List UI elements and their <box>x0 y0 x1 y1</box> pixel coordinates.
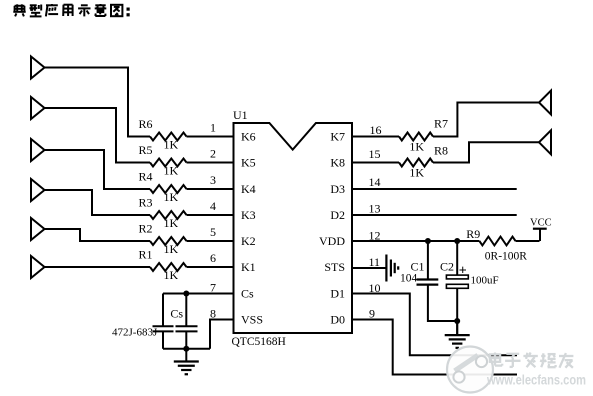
wire pad P2 to R5 <box>45 108 151 163</box>
wire pad P1 to R6 <box>45 68 151 137</box>
wire VDD to C1 <box>427 241 429 280</box>
svg-text:14: 14 <box>369 175 381 189</box>
svg-text:1K: 1K <box>164 242 179 256</box>
resistor R3 <box>150 211 187 219</box>
svg-text:4: 4 <box>210 199 216 213</box>
wire pin 14 (D3) <box>352 188 517 190</box>
ground (sideways) at STS <box>385 255 387 282</box>
svg-text:+: + <box>459 264 467 279</box>
wire pin 13 (D2) <box>352 214 517 216</box>
svg-text:7: 7 <box>210 281 216 295</box>
op IC U1 QTC5168H body <box>234 123 353 333</box>
svg-text:D0: D0 <box>330 313 345 327</box>
svg-text:VCC: VCC <box>530 218 552 229</box>
resistor R4 <box>150 185 187 193</box>
svg-text:1K: 1K <box>164 190 179 204</box>
svg-text:R6: R6 <box>139 117 153 131</box>
svg-text:1K: 1K <box>164 164 179 178</box>
wire R7 to pad P7 <box>433 103 540 137</box>
svg-text:9: 9 <box>369 307 375 321</box>
title text 典型应用示意图: <box>13 4 129 16</box>
wire pin 8 (VSS) <box>210 320 234 349</box>
svg-text:15: 15 <box>369 147 381 161</box>
svg-text:R3: R3 <box>139 196 153 210</box>
wire C2 to ground <box>456 288 458 336</box>
svg-text:R2: R2 <box>139 222 153 236</box>
svg-text:12: 12 <box>369 229 381 243</box>
wire R3 to pin 4 <box>187 214 234 216</box>
resistor R6 <box>150 133 187 141</box>
ground below C2 <box>456 322 458 335</box>
svg-text:Cs: Cs <box>170 307 183 321</box>
capacitor C1 plates <box>417 278 439 280</box>
node junction on Cs net <box>183 291 189 297</box>
power VCC symbol <box>539 229 541 241</box>
resistor R1 <box>150 263 187 271</box>
resistor R8 <box>399 159 433 167</box>
svg-text:R8: R8 <box>434 144 448 158</box>
wire Cs right leg upper <box>185 294 187 327</box>
svg-text:R1: R1 <box>139 248 153 262</box>
svg-text:K5: K5 <box>241 156 256 170</box>
svg-text:R4: R4 <box>139 170 153 184</box>
touch pad electrode P3 <box>31 139 45 161</box>
svg-text:D3: D3 <box>330 182 345 196</box>
svg-text:VDD: VDD <box>319 234 345 248</box>
svg-text:100uF: 100uF <box>471 275 499 287</box>
svg-text:VSS: VSS <box>241 313 263 327</box>
wire pin 7 (Cs) <box>163 293 234 295</box>
svg-text:3: 3 <box>210 173 216 187</box>
wire pin 11 (STS) <box>352 267 386 269</box>
wire Cs left leg upper <box>162 294 164 327</box>
node junction VDD-C1 <box>425 238 431 244</box>
resistor R2 <box>150 237 187 245</box>
resistor R9 <box>479 237 515 246</box>
svg-text:2: 2 <box>210 147 216 161</box>
svg-text:1K: 1K <box>164 216 179 230</box>
wire pad P4 to R3 <box>45 190 151 215</box>
wire VDD to C2 <box>456 241 458 276</box>
svg-text:K7: K7 <box>330 130 345 144</box>
svg-text:C1: C1 <box>411 260 425 274</box>
wire pad P3 to R4 <box>45 150 151 189</box>
touch pad electrode P4 <box>31 179 45 201</box>
svg-text:8: 8 <box>210 307 216 321</box>
wire Cs bottom bus <box>163 348 210 350</box>
wire R4 to pin 3 <box>187 188 234 190</box>
wire R6 to pin 1 <box>187 136 234 138</box>
svg-text:16: 16 <box>370 123 382 137</box>
svg-text:1: 1 <box>210 121 216 135</box>
wire R5 to pin 2 <box>187 162 234 164</box>
node junction VDD-C2 <box>454 238 460 244</box>
svg-text:K8: K8 <box>330 156 345 170</box>
svg-text:R5: R5 <box>139 143 153 157</box>
svg-text:www.elecfans.com: www.elecfans.com <box>486 373 586 388</box>
capacitor C2 plates (electrolytic) <box>446 275 468 279</box>
node junction at Cs ground <box>183 346 189 352</box>
touch pad electrode P8 <box>539 130 551 154</box>
svg-text:1K: 1K <box>164 268 179 282</box>
svg-text:11: 11 <box>369 255 381 269</box>
svg-text:0R-100R: 0R-100R <box>485 251 528 263</box>
svg-text:Cs: Cs <box>241 287 254 301</box>
svg-text:K2: K2 <box>241 234 256 248</box>
touch pad electrode P1 <box>31 57 45 79</box>
wire pin 10 (D1) <box>352 294 517 356</box>
node junction C1-C2 ground <box>454 318 460 324</box>
touch pad electrode P2 <box>31 97 45 119</box>
svg-text:5: 5 <box>210 225 216 239</box>
svg-text:R7: R7 <box>434 117 448 131</box>
touch pad electrode P5 <box>31 218 45 240</box>
svg-text:6: 6 <box>210 251 216 265</box>
wire pin 9 (D0) <box>352 320 517 375</box>
ground below Cs <box>185 349 187 362</box>
svg-text:K3: K3 <box>241 208 256 222</box>
resistor R5 <box>150 159 187 167</box>
watermark logo and text <box>447 347 586 393</box>
svg-text:D2: D2 <box>330 208 345 222</box>
wire pad P6 to R1 <box>45 266 151 268</box>
wire R2 to pin 5 <box>187 240 234 242</box>
wire R8 to pad P8 <box>433 142 540 162</box>
svg-text:K6: K6 <box>241 130 256 144</box>
wire R1 to pin 6 <box>187 266 234 268</box>
resistor R7 <box>399 133 433 141</box>
svg-text:1K: 1K <box>409 166 424 180</box>
svg-text:13: 13 <box>369 202 381 216</box>
svg-text:U1: U1 <box>233 108 248 122</box>
wire pin 16 to R7 <box>352 136 399 138</box>
capacitor Cs right section plates <box>176 325 198 327</box>
svg-text:K4: K4 <box>241 182 256 196</box>
touch pad electrode P6 <box>31 256 45 278</box>
svg-text:C2: C2 <box>440 260 454 274</box>
svg-text:472J-683J: 472J-683J <box>112 327 158 339</box>
wire Cs right leg lower <box>185 331 187 348</box>
wire C1 to ground bus <box>428 285 457 321</box>
wire Cs left leg lower <box>162 331 164 348</box>
svg-text:D1: D1 <box>330 287 345 301</box>
svg-text:1K: 1K <box>409 140 424 154</box>
svg-text:STS: STS <box>324 260 345 274</box>
wire pin 12 (VDD) rail <box>352 240 479 242</box>
svg-text:1K: 1K <box>164 138 179 152</box>
svg-text:QTC5168H: QTC5168H <box>232 336 286 348</box>
svg-text:K1: K1 <box>241 260 256 274</box>
svg-text:R9: R9 <box>466 227 480 241</box>
wire pin 15 to R8 <box>352 162 399 164</box>
capacitor Cs left section plates <box>153 325 174 327</box>
svg-text:104: 104 <box>400 273 418 285</box>
wire pad P5 to R2 <box>45 229 151 241</box>
wire R9 to VCC <box>516 240 540 242</box>
touch pad electrode P7 <box>539 91 551 115</box>
svg-text:10: 10 <box>369 281 381 295</box>
